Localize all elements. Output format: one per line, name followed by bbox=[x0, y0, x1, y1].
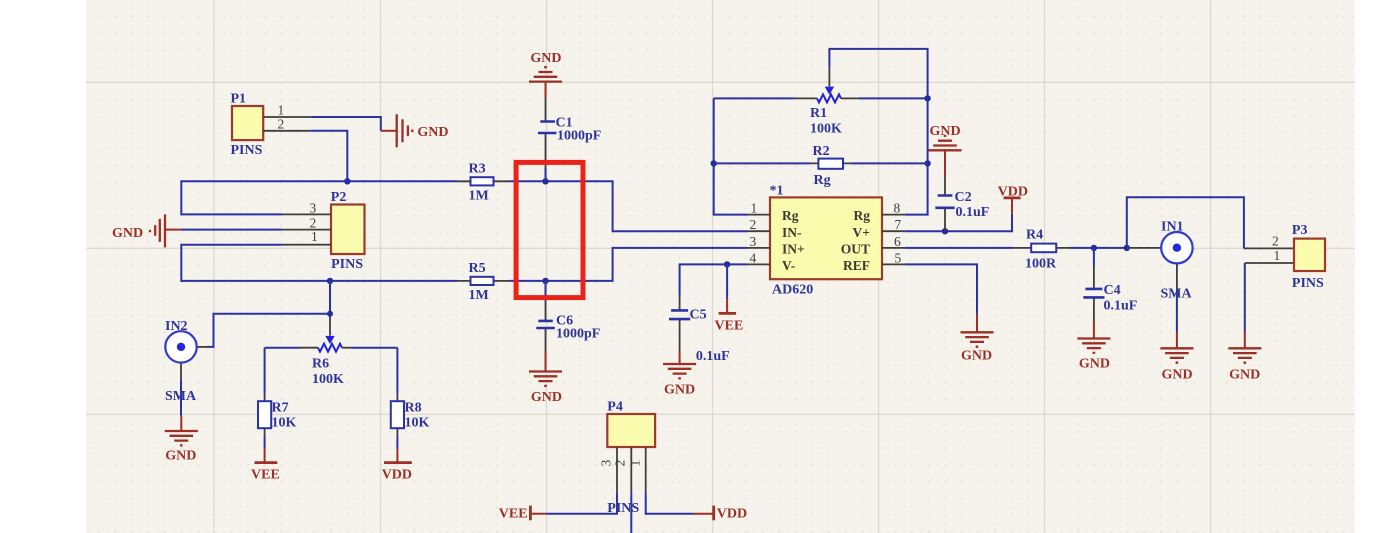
svg-text:GND: GND bbox=[664, 382, 695, 397]
R3 value 1M bbox=[469, 189, 489, 204]
junction P2 branch / R5 net bbox=[327, 278, 333, 284]
svg-text:IN2: IN2 bbox=[165, 319, 188, 334]
svg-text:10K: 10K bbox=[272, 416, 297, 431]
svg-text:P4: P4 bbox=[607, 399, 623, 414]
svg-text:GND: GND bbox=[930, 124, 961, 139]
IN2 designator label bbox=[165, 319, 188, 334]
C6 value 1000pF bbox=[556, 327, 600, 342]
svg-text:OUT: OUT bbox=[841, 242, 870, 257]
svg-text:PINS: PINS bbox=[231, 143, 263, 158]
junction C6 / R5 net bbox=[542, 278, 548, 284]
wire P4 pin1 to VDD bbox=[646, 493, 694, 513]
svg-text:3: 3 bbox=[750, 234, 757, 249]
svg-text:VDD: VDD bbox=[998, 184, 1028, 199]
U1 pin 1 bbox=[747, 214, 770, 216]
wire R7 to VEE bbox=[264, 437, 266, 449]
power VEE at P4 bbox=[530, 506, 546, 521]
svg-text:7: 7 bbox=[895, 217, 902, 232]
R1 designator label bbox=[810, 106, 827, 121]
power VDD at U1 pin7 bbox=[1004, 198, 1021, 214]
svg-text:P1: P1 bbox=[231, 91, 247, 106]
C5 value 0.1uF bbox=[696, 349, 730, 364]
wire R6 left to R7 bbox=[264, 348, 266, 393]
svg-text:100R: 100R bbox=[1025, 256, 1057, 271]
svg-text:2: 2 bbox=[750, 217, 757, 232]
GND net label at P1 bbox=[417, 125, 448, 140]
P4 part name PINS bbox=[607, 501, 639, 516]
svg-text:PINS: PINS bbox=[607, 501, 639, 516]
ground GND at P2 pin2 (rotated left) bbox=[150, 214, 181, 247]
svg-text:1: 1 bbox=[628, 460, 643, 467]
wire R5 to IN+ of U1 bbox=[509, 248, 747, 281]
svg-text:GND: GND bbox=[112, 226, 143, 241]
svg-text:R3: R3 bbox=[469, 162, 486, 177]
wire VEE drop bbox=[726, 264, 728, 299]
U1 pin 2 bbox=[747, 230, 770, 232]
svg-text:GND: GND bbox=[165, 449, 196, 464]
svg-text:Rg: Rg bbox=[854, 208, 871, 223]
connector IN1 (SMA) bbox=[1161, 232, 1192, 263]
VEE net label at P4 bbox=[499, 507, 528, 522]
svg-text:REF: REF bbox=[843, 258, 870, 273]
R4 value 100R bbox=[1025, 256, 1057, 271]
C1 designator label bbox=[556, 116, 573, 131]
P2 pin 1 bbox=[282, 244, 331, 246]
P3 pin 1 bbox=[1245, 262, 1294, 264]
svg-text:C2: C2 bbox=[955, 190, 972, 205]
svg-text:GND: GND bbox=[1229, 368, 1260, 383]
resistor R2 bbox=[714, 159, 928, 169]
P2 pin 1 number bbox=[311, 229, 318, 244]
ground GND below IN1 bbox=[1160, 332, 1193, 363]
potentiometer R1 bbox=[714, 67, 928, 102]
U1 pin 5 bbox=[882, 263, 905, 265]
GND net label below IN2 bbox=[165, 449, 196, 464]
IN2 part name SMA bbox=[165, 389, 197, 404]
svg-text:VEE: VEE bbox=[251, 468, 280, 483]
P1 pin 2 bbox=[263, 130, 311, 132]
svg-text:3: 3 bbox=[599, 460, 614, 467]
svg-text:4: 4 bbox=[750, 250, 757, 265]
P1 designator label bbox=[231, 91, 247, 106]
P2 designator label bbox=[331, 190, 347, 205]
P2 part name PINS bbox=[331, 257, 363, 272]
svg-text:100K: 100K bbox=[312, 372, 344, 387]
wire U1 pin6 OUT to R4 bbox=[905, 247, 1013, 249]
R2 value Rg bbox=[814, 173, 831, 188]
svg-text:6: 6 bbox=[894, 234, 901, 249]
U1 pin 3 number bbox=[750, 234, 757, 249]
wire U1 pin7 to VDD bbox=[905, 214, 1012, 232]
connector P1 bbox=[232, 106, 263, 140]
capacitor C6 bbox=[536, 281, 555, 352]
ground GND below C4 bbox=[1077, 322, 1110, 353]
junction R1 right bbox=[924, 95, 930, 101]
svg-text:1M: 1M bbox=[469, 288, 489, 303]
U1 pin name V- bbox=[782, 258, 795, 273]
U1 pin 7 number bbox=[895, 217, 902, 232]
wire R4 to IN1 node bbox=[1070, 247, 1127, 249]
junction R2 left bbox=[711, 160, 717, 166]
svg-text:IN+: IN+ bbox=[782, 242, 805, 257]
P3 pin 2 bbox=[1244, 247, 1294, 249]
ground GND at REF bbox=[961, 314, 994, 347]
U1 pin 5 number bbox=[895, 250, 902, 265]
R6 value 100K bbox=[312, 372, 344, 387]
wire R3 to IN- of U1 bbox=[509, 181, 747, 231]
ground GND below C5 bbox=[663, 352, 696, 378]
svg-text:R5: R5 bbox=[469, 261, 486, 276]
GND net label below IN1 bbox=[1162, 368, 1193, 383]
VDD net label at P4 bbox=[717, 507, 747, 522]
svg-text:Rg: Rg bbox=[814, 173, 831, 188]
wire P1 pin1 to GND bbox=[311, 117, 381, 131]
svg-text:VEE: VEE bbox=[499, 507, 528, 522]
svg-text:Rg: Rg bbox=[782, 208, 799, 223]
svg-text:0.1uF: 0.1uF bbox=[956, 205, 990, 220]
wire P2 branch down to R6 wiper bbox=[329, 281, 331, 318]
GND net label below C6 bbox=[531, 390, 562, 405]
U1 pin 2 number bbox=[750, 217, 757, 232]
svg-text:IN-: IN- bbox=[782, 225, 802, 240]
R5 designator label bbox=[469, 261, 486, 276]
VEE net label at U1 pin4 bbox=[715, 319, 744, 334]
IN2 ground pin wire bbox=[180, 363, 182, 416]
R8 designator label bbox=[405, 401, 422, 416]
IN1 designator label bbox=[1161, 220, 1184, 235]
connector P2 bbox=[331, 205, 365, 255]
U1 pin name IN+ bbox=[782, 242, 805, 257]
svg-text:2: 2 bbox=[613, 460, 628, 467]
C1 value 1000pF bbox=[557, 128, 601, 143]
VDD net label at U1 pin7 bbox=[998, 184, 1028, 199]
svg-text:1000pF: 1000pF bbox=[556, 327, 600, 342]
svg-text:R6: R6 bbox=[312, 357, 329, 372]
U1 pin name OUT bbox=[841, 242, 870, 257]
junction C2 / V+ net bbox=[942, 228, 948, 234]
U1 pin 7 bbox=[882, 230, 905, 232]
svg-text:V+: V+ bbox=[853, 225, 870, 240]
power VEE below R7 bbox=[255, 449, 278, 463]
wire P2 pin3 to R3 net bbox=[181, 181, 457, 214]
wire P4 pin2 down bbox=[630, 493, 632, 533]
resistor R4 bbox=[1013, 244, 1070, 253]
resistor R5 bbox=[458, 277, 510, 285]
connector P3 bbox=[1294, 239, 1325, 271]
P3 designator label bbox=[1292, 223, 1308, 238]
wire R1 wiper loop bbox=[829, 49, 927, 99]
P4 designator label bbox=[607, 399, 623, 414]
P3 part name PINS bbox=[1292, 276, 1324, 291]
IN1 ground pin wire bbox=[1176, 263, 1178, 331]
svg-text:V-: V- bbox=[782, 258, 795, 273]
GND net label at P2 bbox=[112, 226, 143, 241]
svg-text:1000pF: 1000pF bbox=[557, 128, 601, 143]
U1 pin 4 number bbox=[750, 250, 757, 265]
svg-text:100K: 100K bbox=[810, 121, 842, 136]
P4 pin 1 number bbox=[628, 460, 643, 467]
P2 pin 2 number bbox=[310, 215, 317, 230]
VDD net label below R8 bbox=[382, 468, 412, 483]
GND net label below C4 bbox=[1079, 357, 1110, 372]
power VEE at U1 pin4 bbox=[719, 299, 737, 313]
svg-text:2: 2 bbox=[1272, 233, 1279, 248]
junction C4 node bbox=[1091, 245, 1097, 251]
VEE net label below R7 bbox=[251, 468, 280, 483]
svg-text:GND: GND bbox=[531, 390, 562, 405]
junction C1 / R3 net bbox=[542, 178, 548, 184]
capacitor C4 bbox=[1083, 248, 1104, 322]
U1 pin 6 number bbox=[894, 234, 901, 249]
svg-text:R2: R2 bbox=[813, 144, 830, 159]
capacitor C2 bbox=[935, 176, 954, 232]
U1 pin 6 bbox=[882, 247, 905, 249]
svg-text:GND: GND bbox=[961, 348, 992, 363]
R2 designator label bbox=[813, 144, 830, 159]
potentiometer R6 bbox=[265, 318, 398, 352]
R1 value 100K bbox=[810, 121, 842, 136]
svg-text:GND: GND bbox=[1079, 357, 1110, 372]
svg-text:1: 1 bbox=[311, 229, 318, 244]
P4 pin 3 number bbox=[599, 460, 614, 467]
svg-text:2: 2 bbox=[278, 116, 285, 131]
C6 designator label bbox=[556, 313, 573, 328]
svg-text:VDD: VDD bbox=[382, 468, 412, 483]
C2 value 0.1uF bbox=[956, 205, 990, 220]
connector IN2 (SMA) bbox=[165, 331, 196, 362]
C4 designator label bbox=[1104, 283, 1121, 298]
svg-text:GND: GND bbox=[530, 51, 561, 66]
ground GND above C2 (flipped earth) bbox=[929, 136, 962, 176]
svg-text:1: 1 bbox=[1274, 248, 1281, 263]
P1 pin 1 bbox=[263, 116, 311, 118]
wire P3 pin1 to ground bbox=[1244, 263, 1246, 332]
svg-text:VDD: VDD bbox=[717, 507, 747, 522]
svg-text:*1: *1 bbox=[770, 184, 784, 199]
U1 pin 8 bbox=[882, 214, 905, 216]
IN1 pin bbox=[1127, 247, 1162, 249]
svg-text:P3: P3 bbox=[1292, 223, 1308, 238]
wire P4 pin3 to VEE bbox=[546, 493, 617, 513]
P3 pin 1 number bbox=[1274, 248, 1281, 263]
U1 pin name IN- bbox=[782, 225, 802, 240]
svg-text:C4: C4 bbox=[1104, 283, 1121, 298]
P4 pin 2 number bbox=[613, 460, 628, 467]
U1 pin 1 number bbox=[751, 201, 758, 216]
ground GND below IN2 bbox=[165, 416, 198, 446]
svg-text:P2: P2 bbox=[331, 190, 347, 205]
wire R6 right to R8 bbox=[396, 348, 398, 393]
P1 part name PINS bbox=[231, 143, 263, 158]
P2 pin 3 number bbox=[310, 200, 317, 215]
GND net label above C2 bbox=[930, 124, 961, 139]
svg-text:GND: GND bbox=[1162, 368, 1193, 383]
highlight red rectangle bbox=[516, 162, 583, 297]
U1 part name AD620 bbox=[772, 283, 813, 298]
GND net label below C5 bbox=[664, 382, 695, 397]
ground GND at P1 pin1 (rotated right) bbox=[381, 114, 413, 147]
svg-text:R4: R4 bbox=[1026, 227, 1043, 242]
svg-text:PINS: PINS bbox=[331, 257, 363, 272]
wire P2 pin1 down to R5 net bbox=[181, 245, 457, 281]
svg-text:0.1uF: 0.1uF bbox=[1104, 299, 1138, 314]
U1 pin name REF bbox=[843, 258, 870, 273]
wire GND to P2 pin2 bbox=[181, 229, 282, 231]
P3 pin 2 number bbox=[1272, 233, 1279, 248]
wire R8 to VDD bbox=[396, 437, 398, 449]
svg-text:8: 8 bbox=[894, 201, 901, 216]
junction VEE / V- net bbox=[724, 261, 730, 267]
op-amp U1 AD620 body bbox=[770, 197, 882, 279]
R3 designator label bbox=[469, 162, 486, 177]
junction IN2 branch bbox=[327, 311, 333, 317]
svg-text:AD620: AD620 bbox=[772, 283, 813, 298]
C4 value 0.1uF bbox=[1104, 299, 1138, 314]
GND net label at REF bbox=[961, 348, 992, 363]
svg-text:0.1uF: 0.1uF bbox=[696, 349, 730, 364]
R7 designator label bbox=[272, 401, 289, 416]
IN1 part name SMA bbox=[1161, 287, 1193, 302]
wire U1 pin1 up to Rg network bbox=[714, 98, 747, 214]
R8 value 10K bbox=[405, 416, 430, 431]
ground GND below C6 bbox=[529, 352, 562, 386]
wire U1 pin5 REF to ground bbox=[905, 264, 977, 314]
P1 pin 2 number bbox=[278, 116, 285, 131]
svg-text:IN1: IN1 bbox=[1161, 220, 1184, 235]
P4 pin 2 bbox=[630, 447, 632, 493]
R7 value 10K bbox=[272, 416, 297, 431]
svg-text:GND: GND bbox=[417, 125, 448, 140]
R6 designator label bbox=[312, 357, 329, 372]
IN2 pin bbox=[196, 346, 207, 348]
svg-text:VEE: VEE bbox=[715, 319, 744, 334]
svg-text:R1: R1 bbox=[810, 106, 827, 121]
svg-text:R8: R8 bbox=[405, 401, 422, 416]
wire IN1 node up to P3 pin2 bbox=[1127, 197, 1244, 248]
svg-text:R7: R7 bbox=[272, 401, 289, 416]
power VDD below R8 bbox=[384, 449, 412, 463]
capacitor C1 bbox=[538, 97, 556, 181]
U1 pin 4 bbox=[747, 263, 770, 265]
ground GND above C1 (flipped earth) bbox=[529, 67, 562, 97]
U1 pin name Rg left bbox=[782, 208, 799, 223]
svg-text:3: 3 bbox=[310, 200, 317, 215]
P4 pin 1 bbox=[645, 447, 647, 493]
C2 designator label bbox=[955, 190, 972, 205]
svg-text:5: 5 bbox=[895, 250, 902, 265]
P2 pin 2 bbox=[282, 229, 331, 231]
R5 value 1M bbox=[469, 288, 489, 303]
svg-text:PINS: PINS bbox=[1292, 276, 1324, 291]
wire IN2 to R6 net bbox=[207, 314, 330, 347]
ground GND below P3 bbox=[1228, 332, 1261, 363]
svg-text:10K: 10K bbox=[405, 416, 430, 431]
U1 designator *1 bbox=[770, 184, 784, 199]
P2 pin 3 bbox=[282, 213, 331, 215]
U1 pin 8 number bbox=[894, 201, 901, 216]
U1 pin 3 bbox=[747, 247, 770, 249]
GND net label above C1 bbox=[530, 51, 561, 66]
C5 designator label bbox=[690, 308, 707, 323]
wire right vertical to U1 pin8 bbox=[905, 98, 928, 214]
resistor R8 bbox=[391, 393, 404, 437]
junction R2 right bbox=[924, 160, 930, 166]
junction P1-pin2 / R3 net bbox=[344, 178, 350, 184]
capacitor C5 bbox=[669, 295, 690, 352]
junction IN1 node bbox=[1124, 245, 1130, 251]
U1 pin name Rg right bbox=[854, 208, 871, 223]
P4 pin 3 bbox=[616, 447, 618, 493]
svg-text:1: 1 bbox=[751, 201, 758, 216]
GND net label below P3 bbox=[1229, 368, 1260, 383]
wire U1 pin4 V- net bbox=[680, 264, 747, 295]
P1 pin 1 number bbox=[278, 103, 285, 118]
connector P4 bbox=[607, 414, 655, 447]
svg-text:1M: 1M bbox=[469, 189, 489, 204]
svg-text:C5: C5 bbox=[690, 308, 707, 323]
resistor R7 bbox=[258, 393, 271, 437]
U1 pin name V+ bbox=[853, 225, 870, 240]
R4 designator label bbox=[1026, 227, 1043, 242]
wire P1 pin2 down to R3 net bbox=[311, 131, 348, 182]
resistor R3 bbox=[458, 177, 510, 185]
power VDD at P4 bbox=[694, 506, 714, 521]
